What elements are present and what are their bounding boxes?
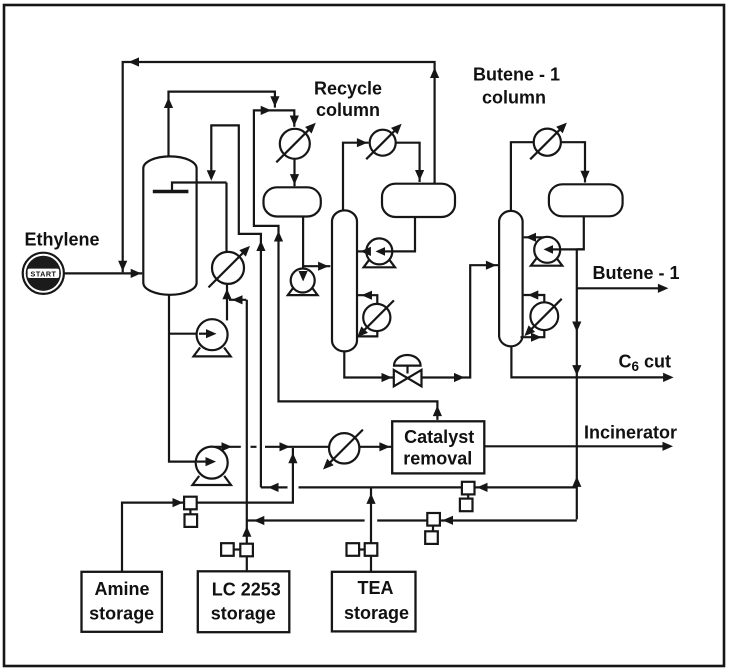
- wire E7 to catalyst removal box: [360, 446, 392, 448]
- wire reboiler E6 vapor return: [524, 295, 545, 303]
- svg-text:column: column: [316, 100, 380, 120]
- pump P5 (butene reflux pump): [531, 258, 562, 266]
- heat exchanger E3 (recycle condenser): [370, 130, 396, 156]
- wire reboiler E6 liquid draw: [521, 331, 545, 337]
- svg-text:Butene - 1: Butene - 1: [593, 263, 680, 283]
- wire C2 overhead to condenser E5: [511, 142, 534, 211]
- wire TEA riser: [370, 487, 372, 571]
- injection valve amine (square pair): [184, 497, 197, 510]
- svg-text:LC 2253: LC 2253: [212, 580, 281, 600]
- injection valve L487 (square pair): [462, 482, 475, 495]
- drum D3 (butene reflux drum): [549, 184, 623, 216]
- pump P1 (reactor circulation pump): [194, 348, 231, 357]
- wire C1 overhead to condenser E3: [343, 143, 369, 212]
- svg-text:START: START: [31, 270, 57, 279]
- svg-text:Butene - 1: Butene - 1: [473, 65, 560, 85]
- control valve CV1 actuator dome: [394, 355, 421, 366]
- node START (ethylene feed): [23, 253, 64, 294]
- pump P2 (bottoms/catalyst pump): [192, 476, 231, 485]
- svg-text:Amine: Amine: [94, 579, 149, 599]
- wire E2 to drum D1: [293, 159, 295, 187]
- svg-text:Ethylene: Ethylene: [25, 230, 100, 250]
- svg-text:storage: storage: [344, 603, 409, 623]
- wire amine injection line: [122, 448, 293, 572]
- drum D2 (recycle drum): [382, 184, 455, 217]
- tank T2 LC 2253 storage: [198, 571, 289, 632]
- wire catalyst-removal riser V3 to condenser E2: [254, 110, 438, 420]
- wire pump P5 reflux to column C2: [524, 236, 544, 238]
- tank T3 TEA storage: [332, 572, 416, 632]
- svg-text:C6 cut: C6 cut: [619, 352, 672, 375]
- svg-text:TEA: TEA: [358, 578, 394, 598]
- svg-text:storage: storage: [89, 604, 154, 624]
- wire reactor overhead W2: [169, 92, 275, 158]
- wire recycle overhead W1 (drum D2 top to reactor feed): [123, 62, 435, 272]
- drum D1 (reflux drum): [264, 187, 321, 216]
- column C2 (butene-1 column): [499, 211, 522, 346]
- wire valve to column C2 feed: [421, 265, 498, 377]
- svg-text:removal: removal: [403, 448, 472, 468]
- wire reboiler E4 vapor return: [358, 295, 378, 304]
- svg-text:storage: storage: [211, 604, 276, 624]
- wire pump P4 reflux to column C1: [358, 250, 367, 252]
- svg-text:column: column: [482, 88, 546, 108]
- wire E1 outlet to reactor internal pipe: [225, 183, 227, 253]
- wire V1 tie-in to E1 riser: [229, 299, 246, 301]
- wire C2 bottoms / C6 cut line: [511, 347, 667, 378]
- wire pump P1 suction: [169, 333, 203, 335]
- heat exchanger E1 (reactor feed heater): [212, 252, 244, 284]
- wire drum D3 to pump P5: [552, 216, 584, 249]
- injection valve TEA (square pair): [347, 543, 360, 556]
- injection valve LC2253 (square pair): [221, 543, 234, 556]
- svg-text:Incinerator: Incinerator: [584, 423, 677, 443]
- svg-text:Recycle: Recycle: [314, 79, 382, 99]
- wire C1 bottoms to valve: [344, 351, 393, 378]
- heat exchanger E6 (butene reboiler): [530, 302, 558, 330]
- injection valve L520 (square pair): [427, 513, 440, 526]
- wire pump P2 discharge to cooler E7 (with crossovers): [215, 446, 330, 448]
- unit Catalyst removal box: [392, 421, 484, 473]
- wire incinerator line: [485, 445, 668, 447]
- wire LC2253 distribution line L520: [247, 519, 577, 521]
- wire V2 riser (TEA/purge to reactor): [211, 125, 261, 487]
- reactor internal feed pipe: [172, 183, 227, 191]
- wire butene-1 product: [577, 249, 663, 519]
- wire reboiler E4 liquid draw: [358, 332, 378, 337]
- wire E5 to drum D3: [561, 142, 585, 182]
- control valve CV1: [394, 370, 422, 386]
- wire drum D1 to pump P3: [302, 217, 304, 277]
- tank T1 Amine storage: [82, 572, 162, 632]
- pump P3 (recycle column feed pump): [288, 288, 318, 295]
- reactor internal sparger: [153, 190, 189, 193]
- wire pump P1 discharge riser to E1: [226, 284, 228, 320]
- wire ethylene feed: [64, 272, 142, 274]
- pump P4 (recycle reflux pump): [364, 260, 395, 268]
- wire E3 to drum D2: [396, 143, 420, 182]
- heat exchanger E4 (recycle reboiler): [363, 304, 390, 331]
- wire V1 riser (LC 2253 catalyst to E1): [246, 300, 248, 572]
- svg-text:Catalyst: Catalyst: [404, 427, 474, 447]
- wire reactor bottoms: [169, 295, 197, 462]
- wire pump P3 discharge to column C1 feed: [303, 265, 330, 267]
- column C1 (recycle column): [332, 210, 357, 351]
- heat exchanger E7 (catalyst section cooler): [329, 433, 359, 463]
- wire purge/TEA distribution line L487: [261, 486, 577, 488]
- wire drum D2 to pump P4: [384, 217, 415, 251]
- reactor R1: [143, 156, 196, 294]
- heat exchanger E2 (recycle condenser): [280, 129, 310, 159]
- heat exchanger E5 (butene condenser): [534, 129, 561, 156]
